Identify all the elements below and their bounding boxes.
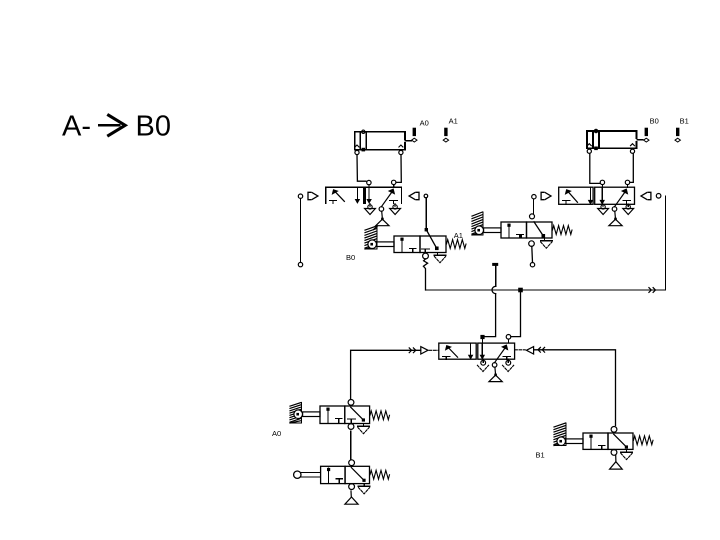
exhaust of ST: [358, 484, 370, 494]
left pilot of valve V2: [541, 192, 551, 199]
flow arrows on valve V3 right pilot wire: [538, 347, 545, 352]
3/2-way valve B0: [365, 226, 466, 263]
svg-text:B0: B0: [346, 253, 355, 262]
wire valve V2 right pilot to supply bus: [656, 194, 665, 291]
wire open pilot line at valve V1 left: [298, 194, 302, 267]
T symbol in valve A1: [519, 234, 523, 238]
wire cylinder A right port to valve V1 port 2: [392, 155, 402, 187]
stray pilot link stroke: [373, 226, 377, 229]
return spring of B1: [634, 436, 654, 445]
cylinder A: [355, 130, 411, 154]
3/2-way valve A0: [290, 400, 390, 434]
wire valve A1 supply open end: [530, 246, 534, 267]
roller actuator of B0: [365, 226, 394, 249]
roller actuator of B1: [554, 423, 583, 446]
title label "A- -> B0": [62, 111, 171, 143]
left pilot of valve V1: [308, 192, 318, 199]
diagonal flow path valve A1: [534, 222, 545, 238]
5/2-way valve V2: [559, 187, 635, 226]
bus wire: [426, 289, 666, 291]
label A1: [454, 231, 463, 240]
flow arrows on valve V3 left pilot wire: [409, 348, 416, 353]
right pilot of valve V1: [409, 192, 419, 199]
wire cylinder B left port to valve V2 port 4: [590, 154, 605, 187]
wire valve B0 port 1 to bus: [423, 259, 427, 290]
5/2-way valve V3: [439, 343, 515, 382]
port circle valve B0 bottom: [423, 253, 429, 259]
3/2-way valve A1: [472, 212, 572, 248]
return spring of ST: [370, 470, 390, 479]
position mark A0: [412, 119, 429, 142]
svg-text:A0: A0: [420, 119, 429, 128]
return spring of A1: [553, 226, 573, 235]
return spring of B0: [447, 240, 467, 249]
title arrow: [100, 115, 126, 135]
supply triangle of start valve: [345, 491, 358, 504]
svg-text:A1: A1: [449, 116, 458, 125]
svg-text:B1: B1: [680, 116, 689, 125]
exhaust of A1: [541, 238, 553, 248]
position mark B0: [644, 116, 659, 142]
dash to valve V3 left: [429, 349, 438, 351]
5/2-way valve V1: [326, 187, 402, 226]
supply triangle of valve B1: [610, 455, 623, 469]
roller actuator of A1: [472, 212, 501, 235]
right pilot of valve V2: [641, 192, 651, 199]
svg-text:B1: B1: [536, 451, 545, 460]
svg-text:A-: A-: [62, 111, 91, 143]
left pilot of valve V3: [421, 347, 428, 354]
label B1: [536, 451, 545, 460]
svg-text:B0: B0: [650, 116, 659, 125]
label B0: [346, 253, 355, 262]
wire valve A0 to start valve: [350, 431, 352, 459]
wire cylinder A left port to valve V1 port 4: [357, 155, 371, 187]
svg-text:A1: A1: [454, 231, 463, 240]
exhaust of A0: [358, 424, 370, 434]
wire cylinder B right port to valve V2 port 2: [625, 154, 633, 187]
port circle valve A1 top: [530, 214, 535, 219]
wire valve B1 output to valve V3 right pilot: [534, 350, 616, 426]
3/2-way valve ST: [294, 460, 390, 494]
exhaust of B0: [434, 253, 446, 263]
plunger actuator of ST: [294, 471, 321, 478]
flow arrows on bus: [649, 288, 656, 293]
position mark B1: [675, 116, 689, 142]
junction on bus: [518, 288, 523, 293]
wire valve A1 output to valve V2 left pilot: [532, 195, 536, 214]
roller actuator of A0: [290, 403, 320, 424]
svg-text:A0: A0: [272, 429, 281, 438]
wire valve A0 output to valve V3 left pilot: [351, 350, 421, 399]
exhaust of B1: [621, 449, 633, 459]
cylinder B: [587, 129, 643, 153]
wire valve V3 port 4 riser with line jump: [480, 263, 498, 343]
port circle valve A1 bottom: [529, 241, 535, 247]
return spring of A0: [370, 411, 390, 420]
position mark A1: [443, 116, 458, 142]
dash to valve V3 right: [515, 349, 526, 351]
svg-text:B0: B0: [136, 111, 171, 143]
right pilot of valve V3: [526, 347, 533, 354]
label A0: [272, 429, 281, 438]
3/2-way valve B1: [554, 423, 653, 460]
wire bus junction to valve V3 port 2: [506, 292, 520, 343]
wire valve V1 right pilot to valve B0 output: [424, 194, 439, 250]
